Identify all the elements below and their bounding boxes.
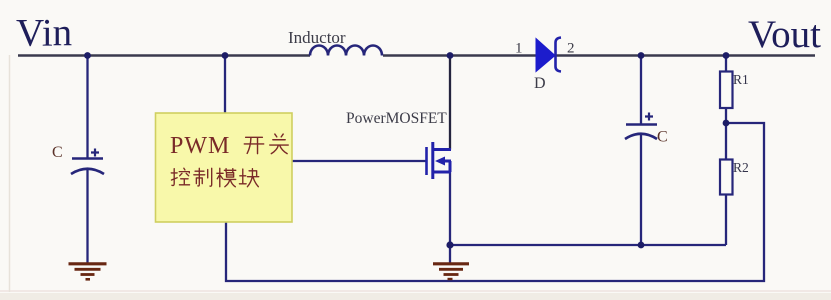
- svg-text:PowerMOSFET: PowerMOSFET: [346, 110, 447, 127]
- svg-text:R2: R2: [733, 160, 749, 175]
- svg-text:Vin: Vin: [16, 12, 72, 55]
- svg-text:2: 2: [567, 41, 575, 57]
- svg-text:C: C: [52, 144, 63, 161]
- svg-text:R1: R1: [733, 72, 749, 87]
- svg-text:Vout: Vout: [748, 13, 821, 56]
- svg-text:D: D: [534, 75, 546, 92]
- svg-text:C: C: [657, 129, 668, 146]
- svg-text:1: 1: [515, 41, 523, 57]
- svg-text:Inductor: Inductor: [288, 28, 346, 47]
- svg-text:PWM: PWM: [170, 133, 230, 159]
